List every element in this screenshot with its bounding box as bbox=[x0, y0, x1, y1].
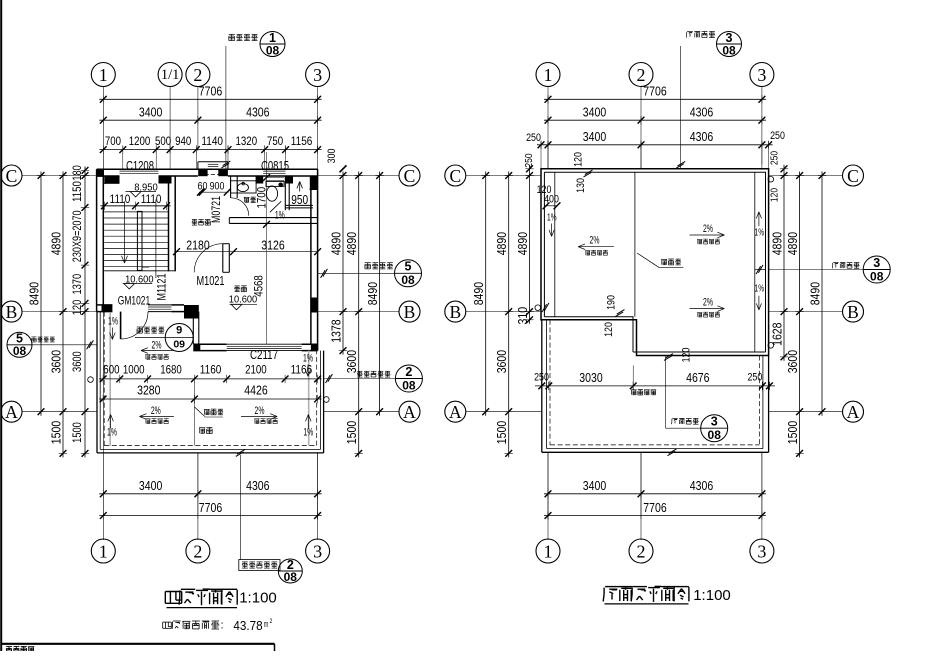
row circle A mid-left bbox=[399, 401, 420, 422]
label cloakroom bbox=[192, 219, 197, 221]
roof gutter line left bbox=[554, 172, 556, 316]
svg-text:4306: 4306 bbox=[690, 129, 713, 144]
grid line 1 right plan bbox=[547, 87, 549, 169]
dimension 3400 4306 bottom left plan bbox=[99, 493, 321, 495]
dimension 4890 3600 1500 right of right plan bbox=[799, 172, 801, 458]
svg-text:750: 750 bbox=[267, 134, 283, 148]
wall right left plan bbox=[317, 169, 319, 350]
svg-text:250: 250 bbox=[526, 132, 541, 144]
terrace inner right plan bbox=[546, 320, 548, 449]
svg-text:4306: 4306 bbox=[246, 478, 269, 493]
terrace drain strip left bbox=[109, 313, 111, 446]
title block box bottom-left bbox=[1, 643, 275, 645]
dimension 4890 1378 right of left plan bbox=[342, 172, 344, 355]
svg-text:3600: 3600 bbox=[72, 351, 84, 372]
dimension 8490 left of right plan bbox=[485, 172, 487, 416]
row circle A mid-right bbox=[445, 401, 466, 422]
vent arrow closet950 bbox=[299, 182, 301, 192]
svg-text:2: 2 bbox=[405, 365, 412, 379]
svg-text:130: 130 bbox=[575, 178, 587, 193]
dimension 4890 3600 1500 right of left plan bbox=[358, 172, 360, 458]
svg-text:230X9=2070: 230X9=2070 bbox=[72, 210, 84, 262]
svg-text:GM1021: GM1021 bbox=[118, 293, 151, 307]
svg-text:B: B bbox=[6, 302, 18, 322]
svg-text:4890: 4890 bbox=[785, 232, 800, 255]
svg-text:1110: 1110 bbox=[110, 194, 131, 206]
svg-text:A: A bbox=[403, 402, 416, 422]
stair direction line up-flight bbox=[155, 199, 157, 278]
svg-text:250: 250 bbox=[769, 151, 781, 165]
svg-text:3: 3 bbox=[711, 414, 718, 428]
svg-text:250: 250 bbox=[770, 130, 785, 142]
row circle C left bbox=[1, 165, 22, 186]
svg-text:3030: 3030 bbox=[579, 370, 602, 385]
grid row lines right of left plan bbox=[318, 175, 399, 177]
label roof-parapet-detail bottom bbox=[672, 417, 677, 419]
svg-text:2180: 2180 bbox=[186, 238, 209, 253]
svg-text:7706: 7706 bbox=[643, 84, 666, 99]
stair-closet wall bbox=[168, 176, 170, 271]
dimension 60 900 bay bbox=[199, 191, 229, 193]
svg-text:940: 940 bbox=[175, 134, 191, 148]
svg-text:3400: 3400 bbox=[139, 105, 162, 120]
window C2117 bbox=[227, 343, 302, 345]
svg-text:7706: 7706 bbox=[643, 500, 666, 515]
svg-text:08: 08 bbox=[722, 44, 736, 58]
wall left left plan bbox=[96, 169, 98, 311]
svg-text:1166: 1166 bbox=[291, 363, 313, 377]
svg-text:7706: 7706 bbox=[199, 500, 222, 515]
svg-text:120: 120 bbox=[573, 152, 585, 167]
svg-text:1: 1 bbox=[544, 542, 553, 562]
dimension 7706 bottom left plan bbox=[99, 515, 321, 517]
column block C1208 left bbox=[104, 176, 119, 184]
terrace divide line bbox=[195, 407, 205, 417]
label terrace-above bbox=[631, 390, 633, 395]
grid line 2 left plan bbox=[197, 87, 199, 152]
svg-text:2%: 2% bbox=[703, 223, 713, 235]
svg-text:3126: 3126 bbox=[261, 238, 284, 253]
row circle B right bbox=[843, 301, 864, 322]
subtitle floor area bbox=[163, 621, 172, 623]
dimension 7706 bottom right plan bbox=[544, 515, 766, 517]
detail circle 5/08 left bbox=[7, 332, 32, 357]
grid circle 2 bottom right plan bbox=[629, 539, 653, 563]
label bay-window-detail top bbox=[229, 33, 235, 35]
stair direction arrow down-flight bbox=[124, 201, 126, 263]
svg-text::: : bbox=[220, 620, 223, 632]
svg-text:1628: 1628 bbox=[770, 323, 785, 346]
detail circle 5/08 right bbox=[395, 260, 422, 287]
svg-text:1150: 1150 bbox=[72, 181, 84, 202]
svg-text:1320: 1320 bbox=[236, 134, 258, 148]
grid line A left plan bbox=[22, 411, 97, 413]
svg-text:08: 08 bbox=[402, 378, 416, 392]
svg-text:1370: 1370 bbox=[72, 274, 84, 295]
svg-text:08: 08 bbox=[870, 269, 884, 283]
svg-text:1000: 1000 bbox=[123, 363, 145, 377]
svg-text:2: 2 bbox=[637, 65, 646, 85]
dimension 3400 4306 bottom right plan bbox=[544, 493, 766, 495]
svg-text:180: 180 bbox=[72, 165, 84, 181]
stair south wall GM1021 bbox=[97, 304, 113, 306]
leader bay window detail top bbox=[225, 46, 227, 169]
svg-text:3400: 3400 bbox=[583, 105, 606, 120]
svg-text:3400: 3400 bbox=[583, 478, 606, 493]
window GM1021 part bbox=[148, 304, 171, 306]
svg-text:3: 3 bbox=[313, 542, 322, 562]
svg-text:1%: 1% bbox=[547, 211, 557, 223]
grid line 3 right plan bbox=[761, 87, 763, 165]
roof gutter line right bbox=[754, 172, 756, 352]
sheet border left edge bbox=[0, 0, 2, 651]
roof inner boundary bbox=[544, 172, 765, 352]
svg-text:08: 08 bbox=[284, 570, 298, 584]
bedroom south wall bbox=[193, 343, 226, 345]
svg-text:1500: 1500 bbox=[72, 422, 84, 443]
grid circle 2 bottom bbox=[186, 539, 210, 563]
roof outer boundary bbox=[541, 169, 769, 356]
svg-text:08: 08 bbox=[401, 273, 415, 287]
svg-text:2%: 2% bbox=[255, 405, 265, 417]
svg-text:1:100: 1:100 bbox=[239, 590, 277, 607]
svg-text:250: 250 bbox=[534, 372, 549, 384]
svg-text:3: 3 bbox=[873, 256, 880, 270]
svg-text:3400: 3400 bbox=[583, 129, 606, 144]
svg-text:1%: 1% bbox=[107, 426, 117, 438]
svg-text:1%: 1% bbox=[108, 316, 118, 328]
svg-text:3400: 3400 bbox=[139, 478, 162, 493]
svg-text:C: C bbox=[847, 166, 859, 186]
svg-text:08: 08 bbox=[708, 428, 722, 442]
svg-text:08: 08 bbox=[13, 344, 27, 358]
stair treads bbox=[104, 205, 168, 207]
grid circle 2 top bbox=[186, 63, 210, 87]
svg-text:1/1: 1/1 bbox=[161, 67, 180, 83]
label bay-window-detail 9 bbox=[137, 326, 143, 328]
witness lines top left plan bbox=[102, 146, 104, 170]
svg-text:4676: 4676 bbox=[686, 370, 709, 385]
grid circle 3 top right plan bbox=[750, 63, 774, 87]
dimension 8490 right of left plan bbox=[379, 172, 381, 416]
witness lines top right plan bbox=[540, 141, 542, 169]
grid circle 3 bottom bbox=[306, 539, 330, 563]
bedroom north wall bbox=[229, 217, 317, 219]
svg-text:3600: 3600 bbox=[49, 350, 64, 373]
grid line B left plan bbox=[22, 311, 97, 313]
svg-text:9: 9 bbox=[176, 325, 182, 337]
row circle B mid-left bbox=[399, 301, 420, 322]
closet950 south wall bbox=[285, 204, 313, 206]
svg-text:1%: 1% bbox=[755, 227, 765, 239]
detail label box parapet 2/08 bbox=[239, 560, 280, 571]
grid row lines right of right plan bbox=[769, 175, 842, 177]
svg-text:1700: 1700 bbox=[254, 187, 268, 209]
row circle C mid-left bbox=[399, 165, 420, 186]
svg-text:4890: 4890 bbox=[770, 232, 785, 255]
row circle B mid-right bbox=[445, 301, 466, 322]
terrace dashed right plan bbox=[549, 320, 551, 445]
svg-text:1500: 1500 bbox=[785, 421, 800, 444]
svg-text:2%: 2% bbox=[703, 296, 713, 308]
grid line 2 right plan bbox=[640, 87, 642, 169]
svg-text:2: 2 bbox=[193, 542, 202, 562]
svg-text:4306: 4306 bbox=[690, 105, 713, 120]
svg-text:C: C bbox=[404, 166, 416, 186]
bay window top bbox=[198, 161, 228, 163]
small circle roof bottom-right bbox=[768, 343, 774, 349]
gutter divider right bbox=[755, 269, 766, 271]
grid circle 1 bottom right plan bbox=[536, 539, 560, 563]
stair railing bbox=[137, 211, 142, 270]
svg-text:4890: 4890 bbox=[49, 232, 64, 255]
row circle A left bbox=[1, 401, 22, 422]
dimension 4890 3600 1500 left of right plan bbox=[508, 172, 510, 458]
terrace outer boundary bbox=[96, 312, 98, 453]
svg-text:1500: 1500 bbox=[494, 421, 509, 444]
svg-text:120: 120 bbox=[72, 300, 84, 316]
svg-text:08: 08 bbox=[266, 44, 280, 58]
dimension 8490 right of right plan bbox=[821, 172, 823, 416]
svg-text:C: C bbox=[6, 166, 18, 186]
svg-text:1156: 1156 bbox=[291, 134, 313, 148]
svg-text:190: 190 bbox=[606, 295, 618, 310]
svg-text:60: 60 bbox=[198, 181, 208, 193]
svg-text:3280: 3280 bbox=[137, 383, 160, 398]
svg-text:1160: 1160 bbox=[200, 363, 222, 377]
svg-text:3: 3 bbox=[757, 542, 766, 562]
svg-text:C: C bbox=[449, 166, 461, 186]
bedroom west wall stub bbox=[222, 244, 224, 273]
svg-text:1500: 1500 bbox=[49, 421, 64, 444]
svg-text:A: A bbox=[449, 402, 462, 422]
leader roof detail bottom bbox=[665, 356, 667, 429]
column block bedroom south-left bbox=[193, 344, 200, 350]
row circle C right bbox=[843, 165, 864, 186]
title right plan bbox=[605, 586, 619, 588]
door M0721 arc bbox=[231, 198, 249, 216]
terrace grid witness col2 bbox=[193, 383, 195, 446]
column block C0815 left bbox=[256, 176, 264, 184]
svg-text:4306: 4306 bbox=[246, 105, 269, 120]
grid circle 1/1 top bbox=[158, 63, 182, 87]
svg-text:4306: 4306 bbox=[690, 478, 713, 493]
terrace small circle left bbox=[88, 377, 94, 383]
grid row lines left of right plan bbox=[466, 175, 541, 177]
svg-text:120: 120 bbox=[537, 184, 552, 196]
dimension 7706 top left plan bbox=[99, 98, 321, 100]
svg-text:1: 1 bbox=[99, 542, 108, 562]
label terrace bbox=[199, 428, 201, 433]
witness line vertical bath-bedroom bbox=[266, 152, 268, 344]
bath west wall bbox=[230, 176, 232, 198]
svg-text:4890: 4890 bbox=[344, 232, 359, 255]
row circle A right bbox=[843, 401, 864, 422]
svg-text:1%: 1% bbox=[755, 283, 765, 295]
stair landing line bbox=[104, 270, 175, 272]
svg-text:C0815: C0815 bbox=[261, 159, 289, 173]
svg-text:250: 250 bbox=[748, 372, 763, 384]
bath east wall bbox=[284, 176, 286, 210]
svg-text:1140: 1140 bbox=[201, 134, 223, 148]
dimension stair column left bbox=[84, 166, 86, 457]
dimension 3400 4306 top right plan bbox=[544, 119, 766, 121]
grid line 1 left plan bbox=[102, 87, 104, 541]
svg-text:5: 5 bbox=[405, 260, 412, 274]
dimension 1110 1110 stair bbox=[100, 205, 170, 207]
svg-text:4568: 4568 bbox=[251, 275, 265, 297]
svg-text:B: B bbox=[847, 302, 859, 322]
column block junction bedroom-west bbox=[184, 305, 199, 319]
detail circle 2/08 right bbox=[395, 365, 422, 392]
svg-text:120: 120 bbox=[769, 188, 781, 202]
svg-text:1200: 1200 bbox=[129, 134, 151, 148]
svg-text:M1121: M1121 bbox=[155, 273, 169, 300]
svg-text:m: m bbox=[264, 619, 268, 630]
terrace dashed railing bbox=[103, 312, 105, 446]
svg-text:C2117: C2117 bbox=[250, 348, 278, 362]
leader parapet detail bottom bbox=[239, 455, 241, 560]
column block B right wall bbox=[311, 298, 318, 313]
svg-text:1500: 1500 bbox=[344, 421, 359, 444]
svg-text:1: 1 bbox=[544, 65, 553, 85]
svg-text:09: 09 bbox=[173, 339, 185, 351]
svg-text:M1021: M1021 bbox=[196, 274, 224, 288]
grid circle 2 top right plan bbox=[629, 63, 653, 87]
label bedroom bbox=[235, 285, 240, 287]
svg-text:3600: 3600 bbox=[494, 350, 509, 373]
grid circle 1 top right plan bbox=[536, 63, 560, 87]
witness lines bottom right plan bbox=[547, 452, 549, 519]
grid line 1/1 left plan bbox=[169, 87, 171, 153]
svg-text:1378: 1378 bbox=[329, 319, 344, 342]
dimension 250 120 4890 1628 right of right plan bbox=[783, 165, 785, 361]
small circle roof top-right bbox=[768, 176, 774, 182]
door GM1021 arc bbox=[121, 312, 148, 339]
svg-text:8490: 8490 bbox=[808, 282, 823, 305]
window C0815 bbox=[263, 170, 285, 172]
svg-text:4890: 4890 bbox=[329, 232, 344, 255]
grid line C left plan bbox=[22, 175, 97, 177]
small circle roof left bbox=[535, 305, 541, 311]
terrace drain strip right bbox=[308, 351, 310, 446]
gutter divider 400 left bbox=[544, 205, 557, 207]
dimension terrace row2 left plan bbox=[99, 398, 322, 400]
door M1021 arc bbox=[194, 244, 223, 273]
detail circle 3/08 right bbox=[863, 256, 890, 283]
row circle B left bbox=[1, 301, 22, 322]
svg-text:4890: 4890 bbox=[515, 232, 530, 255]
wall top left plan bbox=[97, 168, 318, 170]
svg-text:500: 500 bbox=[155, 134, 171, 148]
svg-text:8490: 8490 bbox=[471, 282, 486, 305]
svg-text:2%: 2% bbox=[151, 405, 161, 417]
svg-text:2: 2 bbox=[270, 618, 273, 625]
dimension 3400 4306 top left plan bbox=[99, 119, 321, 121]
svg-text:600: 600 bbox=[103, 363, 119, 377]
svg-text:3600: 3600 bbox=[785, 350, 800, 373]
svg-text:43.78: 43.78 bbox=[233, 618, 262, 633]
svg-text:2100: 2100 bbox=[245, 363, 267, 377]
svg-text:2: 2 bbox=[193, 65, 202, 85]
svg-text:310: 310 bbox=[515, 307, 530, 325]
svg-text:3: 3 bbox=[313, 65, 322, 85]
washbasin cabinet bbox=[231, 181, 257, 193]
svg-text:2%: 2% bbox=[590, 235, 600, 247]
svg-text:2: 2 bbox=[637, 542, 646, 562]
svg-text:120: 120 bbox=[603, 322, 615, 337]
svg-text:2%: 2% bbox=[152, 340, 162, 352]
svg-text:M0721: M0721 bbox=[209, 196, 223, 223]
svg-text:700: 700 bbox=[105, 134, 121, 148]
svg-text:B: B bbox=[404, 302, 416, 322]
grid circle 1 top bbox=[91, 63, 115, 87]
svg-text:1: 1 bbox=[99, 65, 108, 85]
grid circle 3 bottom right plan bbox=[750, 539, 774, 563]
toilet bbox=[266, 181, 284, 186]
title left plan bbox=[165, 591, 181, 593]
svg-text:A: A bbox=[847, 402, 860, 422]
grid circle 1 bottom bbox=[91, 539, 115, 563]
svg-text:120: 120 bbox=[681, 348, 693, 363]
dimension 4890 3600 1500 left bbox=[62, 172, 64, 458]
column block bay right bbox=[218, 169, 228, 177]
svg-text:300: 300 bbox=[326, 149, 338, 164]
column block top-right corner bbox=[310, 176, 318, 190]
dimension 250 4890 310 left of right plan bbox=[529, 165, 531, 324]
detail circle 9/09 bay window bbox=[165, 324, 193, 352]
svg-text:4890: 4890 bbox=[494, 232, 509, 255]
column block bottom-right corner bbox=[311, 344, 318, 350]
shower slope line bbox=[270, 201, 281, 212]
dimension 7706 top right plan bbox=[544, 98, 766, 100]
svg-text:950: 950 bbox=[291, 193, 308, 207]
grid line 3 left plan bbox=[317, 87, 319, 153]
svg-text:B: B bbox=[449, 302, 461, 322]
window C1208 bbox=[120, 170, 159, 172]
watershed line label right plan bbox=[637, 253, 659, 267]
terrace small circle right bbox=[324, 397, 330, 403]
column block stair south left bbox=[102, 305, 113, 312]
svg-text:900: 900 bbox=[210, 181, 225, 193]
row circle C mid-right bbox=[445, 165, 466, 186]
svg-text:7706: 7706 bbox=[199, 84, 222, 99]
svg-text:A: A bbox=[5, 402, 18, 422]
break marks on top leader bbox=[676, 164, 684, 169]
dimension 250 3400 4306 250 top right plan bbox=[537, 144, 773, 146]
dimension 250 3030 4676 250 terrace bbox=[535, 385, 775, 387]
svg-text:4426: 4426 bbox=[244, 383, 267, 398]
svg-text:8490: 8490 bbox=[27, 282, 42, 305]
column block bay left bbox=[198, 169, 207, 177]
terrace inner line bbox=[99, 312, 101, 450]
svg-text:C1208: C1208 bbox=[126, 159, 154, 173]
dimension terrace row1 left plan bbox=[99, 378, 322, 380]
dimension 2180 3126 bbox=[177, 251, 318, 253]
column block C0815 right bbox=[286, 176, 294, 184]
column block top-left corner bbox=[97, 169, 104, 177]
leader roof detail top bbox=[680, 46, 682, 169]
bedroom west wall bbox=[192, 319, 194, 345]
dimension top row3 left plan bbox=[99, 149, 321, 151]
window C0815 sill bbox=[266, 176, 285, 178]
svg-text:250: 250 bbox=[523, 153, 535, 167]
witness lines bottom left plan bbox=[102, 453, 104, 519]
svg-text:1:100: 1:100 bbox=[693, 587, 731, 604]
svg-text:3600: 3600 bbox=[344, 350, 359, 373]
label roof-parapet-detail top bbox=[687, 30, 693, 32]
svg-text:3: 3 bbox=[757, 65, 766, 85]
